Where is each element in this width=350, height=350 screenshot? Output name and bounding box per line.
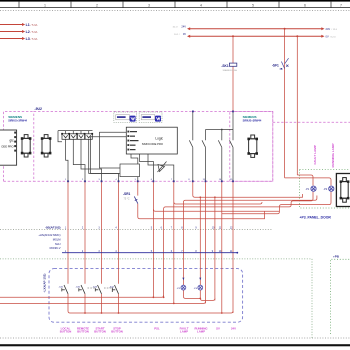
relay out 1 staircase xyxy=(66,139,68,181)
wire right device to panel lamp1 long row xyxy=(183,196,317,286)
column header bottom line xyxy=(0,7,350,9)
wire lamp1 return to staircase xyxy=(164,192,313,298)
svg-text:L3: L3 xyxy=(26,37,30,41)
sub device box below simocode xyxy=(120,164,140,177)
svg-text:5: 5 xyxy=(252,3,254,7)
bus B 0V top xyxy=(190,35,322,37)
panel lamp P4 xyxy=(198,285,203,290)
right edge device (panel meter) xyxy=(336,174,350,207)
pin labels on 9U2 edge xyxy=(65,179,233,181)
svg-text:SV: SV xyxy=(216,326,220,330)
svg-text:-9U2: -9U2 xyxy=(35,107,42,111)
profibus connector box 2 xyxy=(139,112,162,122)
relay out 2 staircase xyxy=(73,139,85,181)
arrowhead bus B right xyxy=(321,35,324,38)
button S4 stop xyxy=(112,285,118,294)
svg-text:-P1: -P1 xyxy=(305,188,309,191)
svg-text:1: 1 xyxy=(44,3,46,7)
contactor K1 xyxy=(22,135,30,157)
svg-text:4: 4 xyxy=(200,3,202,7)
bus A 24V top xyxy=(190,28,322,30)
panel lamp2 to lamp rail xyxy=(200,290,215,300)
svg-text:/ 12.0: / 12.0 xyxy=(332,29,338,31)
svg-text:BUTTON: BUTTON xyxy=(94,330,106,334)
junction dot row197/lamp2 xyxy=(199,196,201,198)
svg-text:SIEMENS: SIEMENS xyxy=(243,115,257,119)
bypass contact 1 xyxy=(205,130,207,141)
main contact 3RW44 xyxy=(232,112,234,140)
junction dots rails xyxy=(153,296,155,298)
svg-text:-S42: -S42 xyxy=(76,286,81,288)
lamp rail xyxy=(183,290,200,298)
wire number labels on cable xyxy=(65,251,233,253)
svg-text:MSLM: MSLM xyxy=(53,238,62,242)
relay out 3 staircase xyxy=(81,139,102,181)
column numbers xyxy=(44,3,342,7)
bypass contact 0 xyxy=(192,112,194,141)
svg-text:6: 6 xyxy=(304,3,306,7)
contactor 3RW44 xyxy=(249,135,257,157)
svg-text:-SF1: -SF1 xyxy=(272,64,279,68)
svg-text:24V: 24V xyxy=(231,326,236,330)
svg-text:24V: 24V xyxy=(181,25,186,29)
wire jog row y211.3 xyxy=(153,209,279,211)
arrowhead bus A right xyxy=(321,27,324,30)
button2 to rail3 xyxy=(84,294,86,313)
svg-text:+P3_PANEL_DOOR: +P3_PANEL_DOOR xyxy=(300,216,332,220)
top lamp P2 running xyxy=(329,186,334,191)
wire from bus A through breaker SF1 down xyxy=(284,29,286,178)
svg-text:MAJ: MAJ xyxy=(55,242,61,246)
simocode left pin wire 1 xyxy=(100,132,127,168)
wire SR1 long jog row xyxy=(137,181,139,195)
green dotted box (lamp group right) xyxy=(300,169,350,208)
wire lamp2 return to staircase xyxy=(222,192,331,214)
svg-text:BUTTON: BUTTON xyxy=(60,330,72,334)
junction dot row197/x215 xyxy=(214,196,216,198)
svg-text:10.1 /: 10.1 / xyxy=(174,34,180,36)
lamp-zone top dashed line xyxy=(273,121,350,123)
svg-text:BUTTON: BUTTON xyxy=(111,330,123,334)
svg-text:-P2: -P2 xyxy=(323,188,327,191)
svg-text:3X0/96-V: 3X0/96-V xyxy=(49,246,60,250)
arrowhead L3 xyxy=(22,37,25,40)
wire drop x215 from row xyxy=(214,197,216,300)
svg-text:gic: gic xyxy=(10,139,14,143)
profibus connector box 1 xyxy=(114,112,137,122)
svg-text:BUTTON: BUTTON xyxy=(77,330,89,334)
svg-text:75 °C: 75 °C xyxy=(124,198,130,201)
bypass contact 2 xyxy=(221,130,223,141)
button S2 remote xyxy=(79,285,85,294)
structure box -9U2 (dashed magenta) xyxy=(4,111,273,181)
svg-text:ODE PRO: ODE PRO xyxy=(1,144,13,148)
svg-text:10.1 /: 10.1 / xyxy=(173,27,179,29)
bypass feeder xyxy=(206,129,234,131)
fuse SK1 xyxy=(229,63,236,66)
top black border bar xyxy=(0,0,350,2)
svg-text:LAMP: LAMP xyxy=(180,330,188,334)
terminal labels on dotted strip xyxy=(65,228,233,230)
svg-text:3NA3803 6.3A: 3NA3803 6.3A xyxy=(223,69,238,72)
wire drop panel lamp2 from row xyxy=(199,197,201,285)
wire jog SF1 to lamp2 top xyxy=(285,178,331,186)
button labels tiny xyxy=(59,286,198,289)
svg-text:2: 2 xyxy=(96,3,98,7)
svg-text:-SR1: -SR1 xyxy=(123,192,130,196)
pin on 3RW44 box top xyxy=(232,111,234,113)
rail 3 button common xyxy=(68,294,233,313)
arrowhead bus A left xyxy=(187,27,190,30)
wire button1 drop xyxy=(67,181,69,283)
svg-text:L2: L2 xyxy=(26,30,30,34)
svg-text:-S43: -S43 xyxy=(92,286,97,288)
junction dot bus A / SF1 xyxy=(284,28,286,30)
bottom magenta labels xyxy=(60,326,236,333)
relay output block (4 channels) xyxy=(62,134,92,140)
green dotted box +PB right bottom xyxy=(331,259,350,334)
arrowhead L2 xyxy=(22,30,25,33)
svg-text:-SK1: -SK1 xyxy=(221,64,228,68)
wire L2 incoming xyxy=(0,31,22,33)
wire jog to lamp1 top xyxy=(297,175,313,186)
dotted separator line (terminal strip row) xyxy=(0,229,272,231)
device box U2 simocode pro xyxy=(126,127,177,154)
svg-text:7: 7 xyxy=(340,3,342,7)
thermostat contact SR1 xyxy=(134,196,138,203)
svg-text:SIEMENS: SIEMENS xyxy=(8,115,22,119)
column tick marks xyxy=(19,1,331,8)
wire PSL drop xyxy=(152,181,154,297)
wire row from pin DIN down jog xyxy=(193,181,303,197)
top lamp P1 fault xyxy=(311,186,316,191)
dotted separator line (PB row) xyxy=(0,258,312,260)
panel lamp P3 xyxy=(181,285,186,290)
svg-text:L1: L1 xyxy=(26,23,30,27)
wire button2 drop xyxy=(84,181,86,283)
dotted frame line bottom xyxy=(0,337,350,339)
green dotted vertical (zone divider) xyxy=(311,259,313,338)
wire jog row y204 xyxy=(174,202,262,204)
junction dot bus B / lamp wire xyxy=(296,35,298,37)
wire from bus B to fuse SK1 xyxy=(232,36,234,111)
wire button3 drop xyxy=(101,181,103,283)
breaker SF1 xyxy=(281,58,288,68)
shield symbol xyxy=(158,165,165,172)
wire L1 incoming xyxy=(0,24,22,26)
panel door box +P3 (dashed blue rounded) xyxy=(49,269,243,323)
svg-text:SIMOCODE PRO: SIMOCODE PRO xyxy=(142,142,163,146)
svg-text:+HS(AF102 MMC): +HS(AF102 MMC) xyxy=(38,233,60,237)
arrowhead bus B left xyxy=(187,35,190,38)
dotted frame line top xyxy=(0,10,350,12)
svg-text:-S41: -S41 xyxy=(59,286,64,288)
simocode bottom pin wires staircase xyxy=(131,154,138,181)
svg-text:SIRIUS+3RW44: SIRIUS+3RW44 xyxy=(8,118,27,122)
svg-text:LAMP: LAMP xyxy=(197,330,205,334)
wire bypass1 red drop xyxy=(205,181,207,303)
wire bypass2 red drop xyxy=(221,181,223,313)
relay block top bus xyxy=(58,130,93,132)
svg-text:Logic: Logic xyxy=(155,137,163,141)
relay block stubs xyxy=(65,131,67,134)
device box U1-left (logic module, cut by page edge) xyxy=(0,130,17,165)
svg-text:-0S(AF102): -0S(AF102) xyxy=(45,226,61,230)
svg-text:/ 12.0: / 12.0 xyxy=(330,37,336,39)
button S1 local xyxy=(62,285,68,294)
relay block left bracket xyxy=(58,131,62,142)
svg-text:-LXX(AF-102): -LXX(AF-102) xyxy=(43,274,47,293)
wire bypass3 red drop xyxy=(232,181,234,313)
button3 to rail3 xyxy=(101,294,103,313)
svg-text:/ 5.6A: / 5.6A xyxy=(31,37,38,41)
terminal pins on 9U2 bottom edge xyxy=(67,111,234,183)
relay out 4 staircase xyxy=(89,139,119,181)
svg-text:0V: 0V xyxy=(183,32,186,36)
svg-text:RUNNING LAMP: RUNNING LAMP xyxy=(331,143,335,167)
wire L3 incoming xyxy=(0,38,22,40)
arrowhead L1 xyxy=(22,23,25,26)
cable line xyxy=(62,252,237,254)
rail 1 bottom xyxy=(0,295,164,297)
svg-text:FAULT LAMP: FAULT LAMP xyxy=(313,145,317,164)
svg-text:3: 3 xyxy=(148,3,150,7)
svg-text:6A: 6A xyxy=(280,68,283,71)
junction dot bus B / SK1 wire xyxy=(232,35,234,37)
bottom black border bar xyxy=(0,344,350,346)
svg-text:0V: 0V xyxy=(326,35,329,39)
svg-text:SIRIUS+3RW44: SIRIUS+3RW44 xyxy=(243,118,262,122)
svg-text:/ 5.6A: / 5.6A xyxy=(31,23,38,27)
svg-text:/ 5.6A: / 5.6A xyxy=(31,30,38,34)
svg-text:+PB: +PB xyxy=(333,255,340,259)
wire drop x174 xyxy=(173,181,175,303)
dark internal wires xyxy=(58,112,233,182)
wire button4 drop xyxy=(118,181,120,283)
structure box siemens 3RW44 (dashed magenta) xyxy=(230,111,350,181)
contactor K2 xyxy=(42,135,50,157)
svg-text:PSL: PSL xyxy=(154,326,160,330)
structure box U1 siemens sirius left (dashed magenta) xyxy=(4,111,34,181)
button S3 start xyxy=(95,285,101,294)
rail 2 bottom xyxy=(0,301,206,303)
svg-text:24V: 24V xyxy=(326,27,331,31)
button4 to rail3 xyxy=(118,294,120,313)
svg-text:-S44: -S44 xyxy=(109,286,114,288)
wire from bus B down to lamp1 xyxy=(296,36,298,175)
junction dot bypass feeder xyxy=(221,129,223,131)
button linkage dashes xyxy=(88,287,97,289)
simocode left pin wire 2 xyxy=(91,137,127,174)
